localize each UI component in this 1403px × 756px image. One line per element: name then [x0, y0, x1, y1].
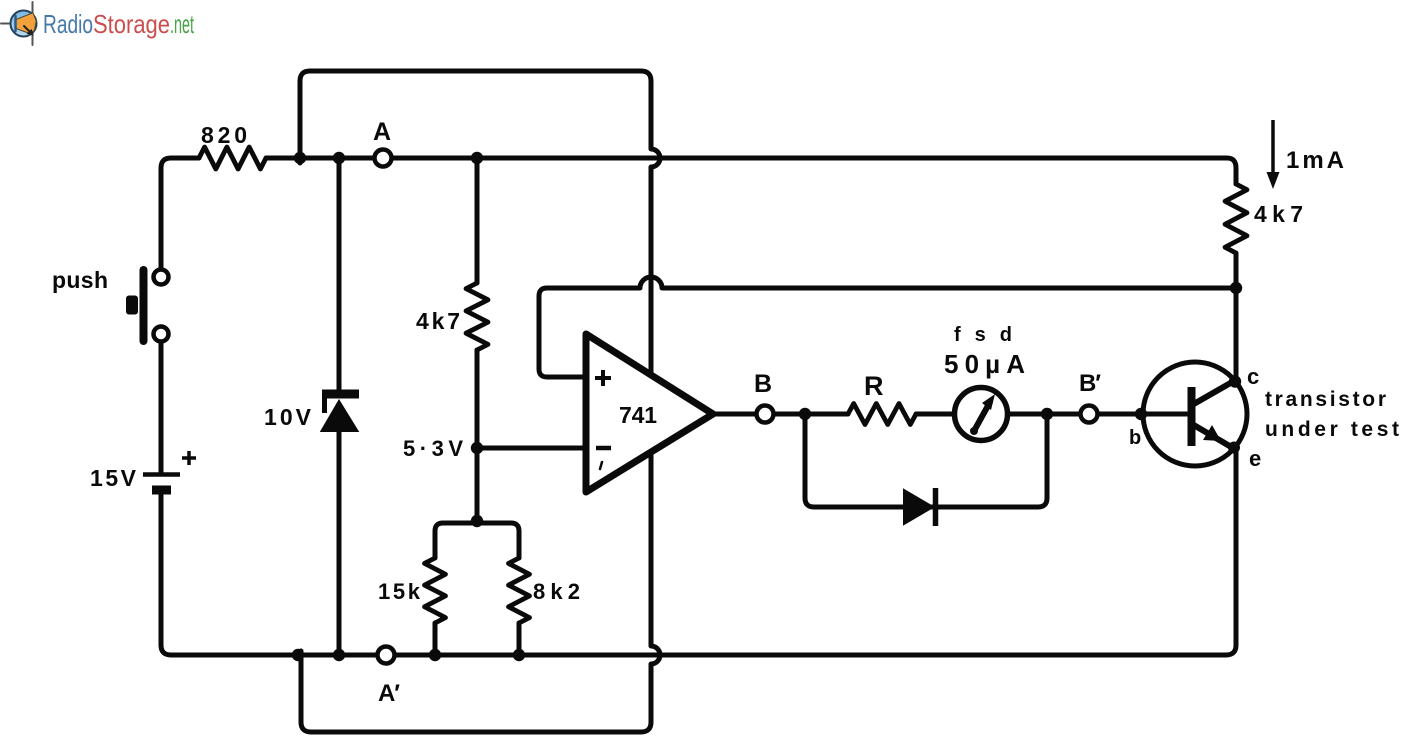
svg-text:741: 741	[619, 402, 657, 428]
svg-text:e: e	[1249, 446, 1261, 471]
svg-text:4k7: 4k7	[1254, 201, 1303, 227]
svg-text:B: B	[754, 370, 772, 398]
svg-text:B′: B′	[1079, 370, 1101, 397]
svg-text:820: 820	[201, 122, 247, 148]
svg-text:.net: .net	[170, 9, 194, 39]
svg-text:15k: 15k	[378, 579, 421, 604]
svg-text:4k7: 4k7	[416, 308, 460, 334]
svg-text:A: A	[373, 118, 391, 146]
svg-text:5·3V: 5·3V	[403, 436, 463, 461]
svg-text:Radio: Radio	[43, 9, 93, 39]
svg-text:A′: A′	[378, 680, 400, 707]
svg-text:c: c	[1247, 364, 1259, 389]
svg-text:15V: 15V	[90, 465, 137, 491]
svg-text:1mA: 1mA	[1286, 147, 1344, 174]
svg-text:10V: 10V	[264, 404, 312, 430]
svg-text:8k2: 8k2	[533, 579, 580, 604]
svg-text:50µA: 50µA	[944, 349, 1025, 379]
svg-text:b: b	[1129, 427, 1141, 449]
svg-text:Storage: Storage	[93, 9, 170, 39]
svg-text:R: R	[864, 371, 884, 401]
svg-text:under test: under test	[1265, 418, 1399, 441]
svg-text:push: push	[52, 267, 108, 293]
